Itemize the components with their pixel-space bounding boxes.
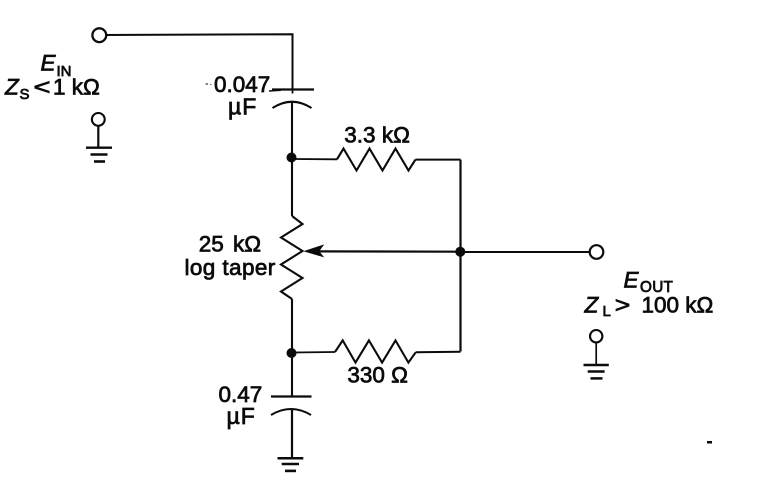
wire node C to R3 [292, 351, 335, 354]
svg-text:25: 25 [199, 232, 224, 257]
svg-text:µF: µF [227, 403, 256, 429]
label EOUT [624, 268, 674, 297]
output terminal [590, 245, 604, 259]
svg-text:L: L [603, 303, 611, 320]
svg-text:E: E [41, 51, 57, 76]
capacitor C1 0.047 uF [269, 90, 314, 109]
svg-text:S: S [20, 86, 30, 103]
right rail wire [459, 160, 461, 352]
label ZS < 1 kOhm [4, 75, 100, 104]
svg-text:>: > [615, 293, 631, 318]
ground (output side) [584, 330, 609, 378]
wire C1 to node A and down to pot [291, 102, 293, 217]
ground (input side) [86, 113, 112, 162]
wire node A to R1 [292, 158, 337, 160]
capacitor C2 0.47 uF [271, 397, 312, 416]
wire input to C1 [106, 34, 292, 89]
svg-text:1 kΩ: 1 kΩ [53, 75, 100, 100]
svg-text:Z: Z [4, 75, 20, 100]
label C1 value [206, 72, 271, 120]
svg-text:Z: Z [584, 293, 600, 318]
potentiometer R2 25 kOhm body [281, 216, 303, 299]
svg-text:<: < [34, 75, 51, 100]
label EIN [41, 51, 72, 81]
svg-text:kΩ: kΩ [233, 232, 261, 257]
svg-text:100 kΩ: 100 kΩ [642, 293, 714, 318]
svg-text:3.3 kΩ: 3.3 kΩ [344, 123, 410, 148]
node C [287, 348, 297, 358]
label R3 value [347, 363, 408, 388]
wire R1 to right rail [416, 159, 461, 161]
wiper arrow of R2 [303, 244, 460, 257]
stray mark [707, 441, 712, 444]
wire node B to output terminal [460, 251, 590, 253]
resistor R3 330 Ohm [335, 340, 416, 362]
label ZL > 100 kOhm [584, 293, 714, 321]
label R1 value [344, 123, 410, 148]
label R2 value [185, 232, 276, 281]
svg-text:E: E [624, 268, 640, 293]
ground (bottom) [278, 458, 304, 471]
svg-text:µF: µF [228, 94, 257, 120]
node B (output node) [455, 247, 465, 257]
svg-text:log taper: log taper [185, 255, 276, 280]
wire C2 to ground [291, 409, 293, 458]
node A [287, 153, 297, 163]
wire R3 to right rail corner [416, 351, 461, 354]
svg-text:330 Ω: 330 Ω [347, 363, 408, 388]
input terminal [92, 28, 106, 42]
wire pot bottom to node C and C2 [291, 299, 293, 396]
resistor R1 3.3 kOhm [337, 149, 416, 171]
label C2 value [219, 382, 263, 429]
